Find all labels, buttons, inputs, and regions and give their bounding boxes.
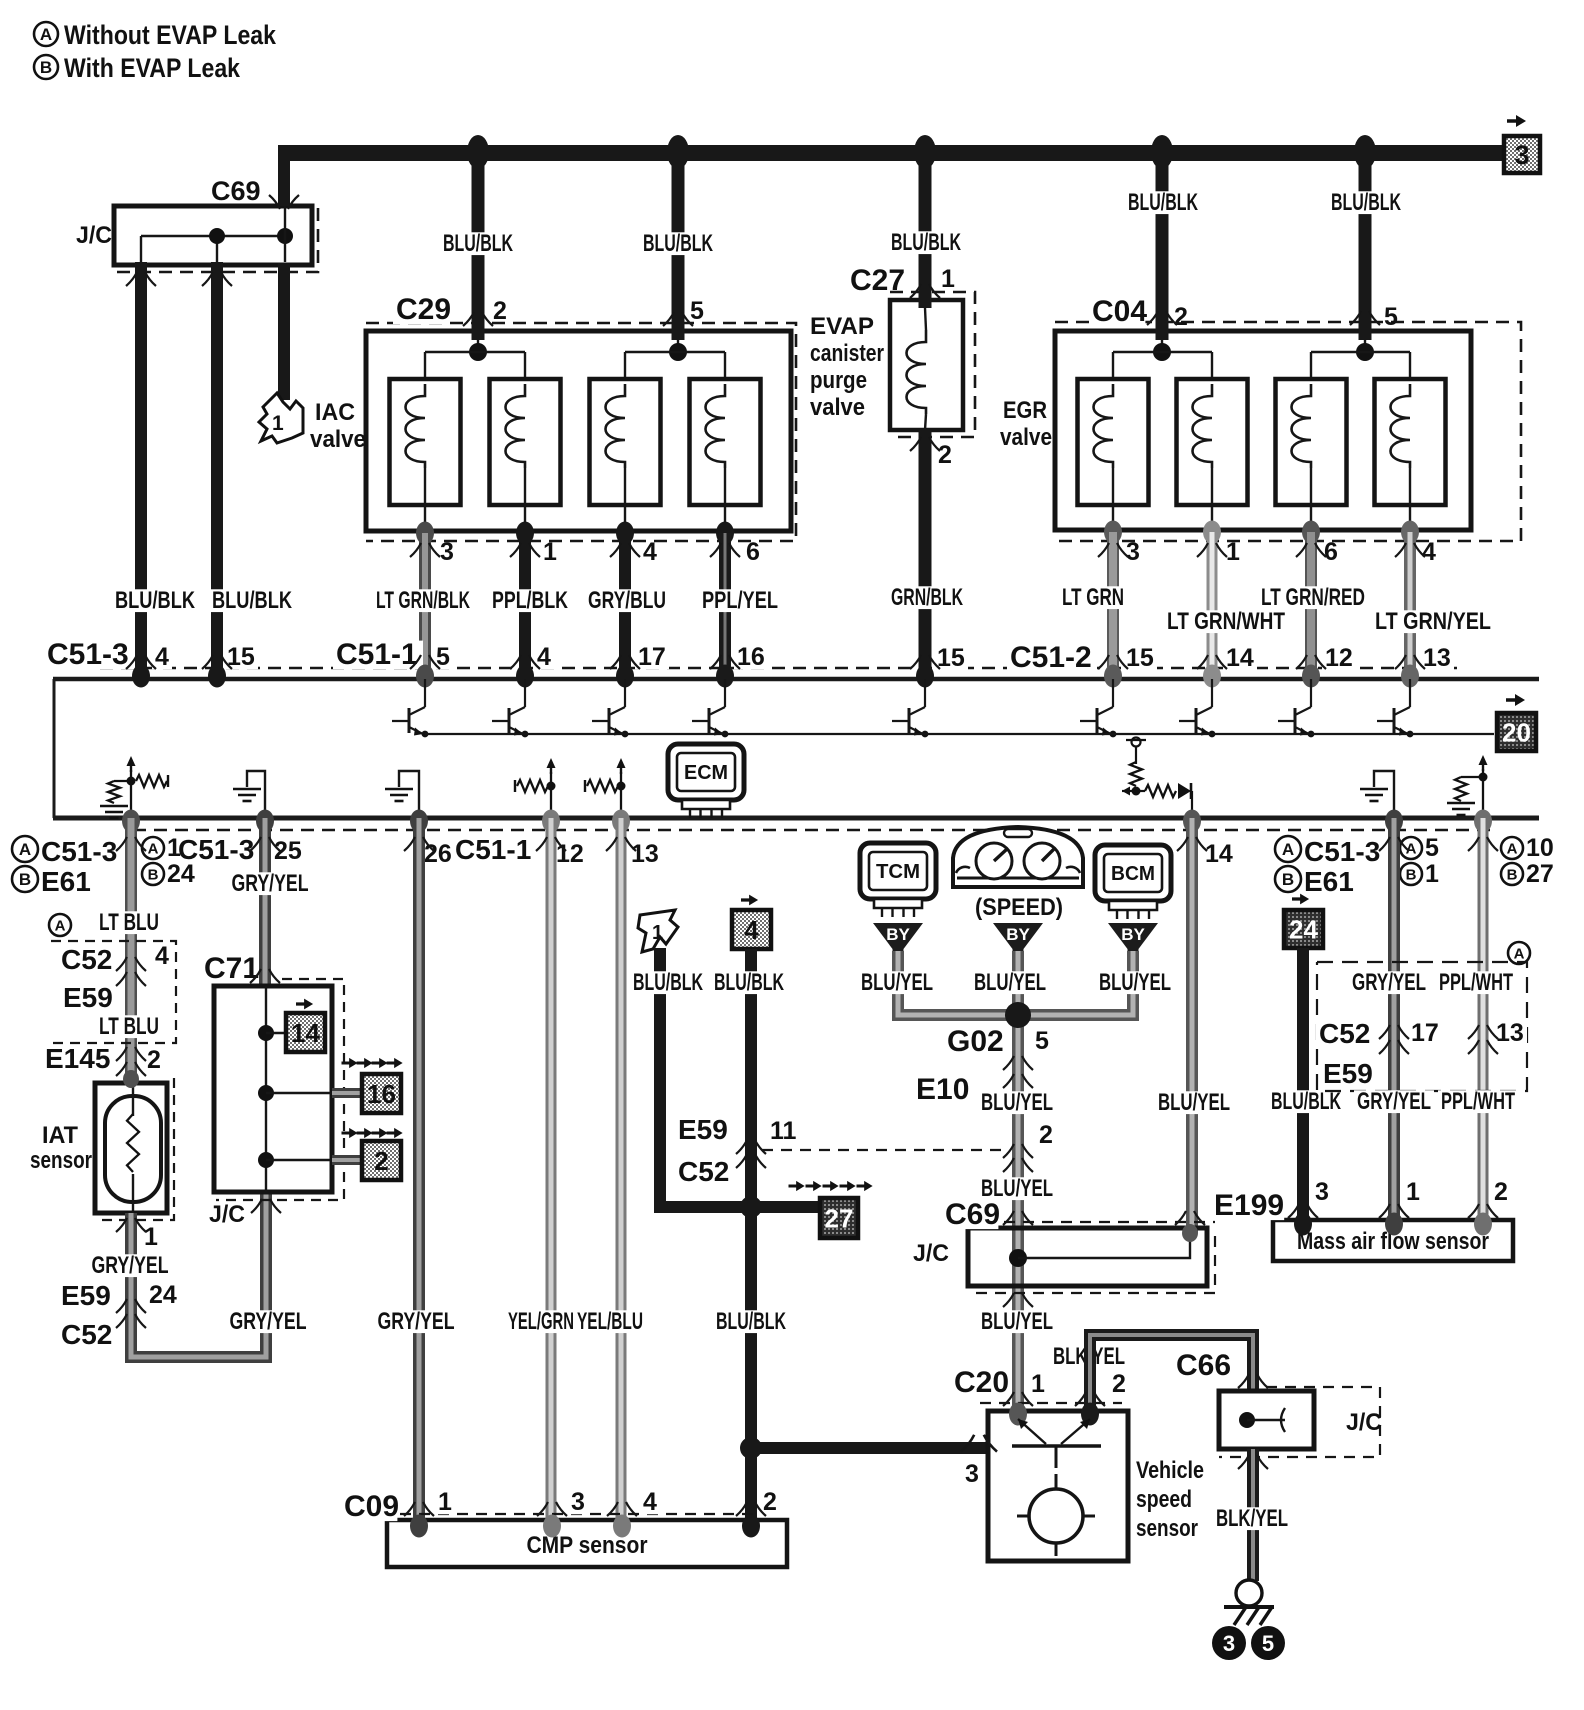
svg-text:PPL/WHT: PPL/WHT bbox=[1441, 1088, 1515, 1115]
svg-text:11: 11 bbox=[770, 1117, 797, 1145]
svg-text:C69: C69 bbox=[211, 176, 261, 206]
svg-text:GRY/YEL: GRY/YEL bbox=[1357, 1088, 1431, 1115]
svg-text:A: A bbox=[1282, 840, 1294, 859]
svg-text:3: 3 bbox=[1514, 140, 1529, 170]
C69 junction dot 2 bbox=[277, 228, 293, 244]
svg-text:24: 24 bbox=[149, 1281, 177, 1309]
wire BLU/BLK bus to C04 pin5 bbox=[1359, 147, 1372, 340]
svg-text:C51-3: C51-3 bbox=[1304, 836, 1380, 867]
gnd hook pin26 bbox=[399, 771, 419, 815]
label pin 11 bbox=[767, 1120, 801, 1144]
svg-text:PPL/WHT: PPL/WHT bbox=[1439, 969, 1513, 996]
label LT BLU 1 bbox=[96, 911, 162, 934]
svg-text:valve: valve bbox=[1000, 424, 1052, 451]
svg-text:2: 2 bbox=[374, 1146, 388, 1176]
svg-text:A: A bbox=[1507, 840, 1518, 857]
svg-text:6: 6 bbox=[1324, 538, 1338, 566]
C29 coil drop x525 bbox=[524, 352, 526, 384]
svg-text:24: 24 bbox=[167, 860, 195, 888]
label YEL/BLU cmp bbox=[574, 1310, 646, 1333]
svg-text:E145: E145 bbox=[45, 1043, 110, 1074]
gnd hook pinA5 bbox=[1374, 771, 1394, 815]
junction block C69 bbox=[114, 206, 312, 265]
svg-text:GRY/BLU: GRY/BLU bbox=[588, 587, 666, 614]
C27 dashed outline bbox=[890, 292, 975, 437]
svg-text:1: 1 bbox=[1031, 1370, 1045, 1398]
C04 coil drop x1212 bbox=[1211, 352, 1213, 384]
label BLU/YEL c20 bbox=[978, 1310, 1056, 1333]
label BLU/YEL 14 bbox=[1155, 1091, 1233, 1114]
C04 coil tail x1311 bbox=[1310, 468, 1312, 530]
label GRY/BLU bbox=[585, 589, 669, 612]
transistor at ECM pin x425 bbox=[392, 679, 428, 737]
ECM lower dashed row bbox=[133, 829, 1490, 832]
svg-text:1: 1 bbox=[272, 412, 284, 435]
C29 coil winding box x425 bbox=[390, 379, 461, 505]
svg-text:C66: C66 bbox=[1176, 1349, 1231, 1382]
label C52 pin17 bbox=[1408, 1022, 1442, 1046]
C04 feed drop 1 bbox=[1161, 340, 1163, 352]
C69L dashed outline2 bbox=[975, 1236, 1215, 1293]
label C51 pin15 grnblk bbox=[934, 647, 968, 671]
C29 coil tail x425 bbox=[424, 468, 426, 531]
C29 coil feed junction dots bbox=[469, 343, 487, 361]
pin bulges at ECM top bbox=[132, 665, 150, 688]
label pin 13b bbox=[628, 843, 662, 867]
label E145 bbox=[42, 1046, 111, 1073]
IAT exit bbox=[132, 1174, 134, 1213]
svg-text:GRY/YEL: GRY/YEL bbox=[230, 1308, 307, 1335]
page-link box 24 with arrow bbox=[1292, 894, 1309, 905]
wire GRY/YEL maf bbox=[1388, 818, 1400, 1224]
svg-text:13: 13 bbox=[631, 840, 659, 868]
label C69 lower bbox=[942, 1201, 998, 1230]
label YEL/GRN cmp bbox=[505, 1310, 577, 1333]
label BLU/BLK cmp2 bbox=[713, 1310, 789, 1333]
EGR valve box C04 bbox=[1055, 331, 1471, 530]
svg-text:With EVAP Leak: With EVAP Leak bbox=[64, 53, 241, 83]
IAT sensor box bbox=[95, 1083, 167, 1213]
wire stub to box16 bbox=[332, 1088, 364, 1098]
C52/E59 dashed box bbox=[51, 941, 176, 1043]
svg-text:16: 16 bbox=[737, 643, 765, 671]
BCM module icon bbox=[1095, 845, 1171, 919]
wire GRY/YEL IAT pin1 bbox=[131, 1192, 266, 1357]
C04 pin 4 bulge bbox=[1401, 521, 1419, 544]
svg-text:C51-3: C51-3 bbox=[47, 638, 129, 671]
svg-text:BLU/YEL: BLU/YEL bbox=[981, 1308, 1053, 1335]
label C51-1 pin16 bbox=[734, 646, 768, 670]
ECM box left edge bbox=[53, 679, 56, 818]
svg-text:B: B bbox=[1282, 870, 1294, 889]
svg-text:Without EVAP Leak: Without EVAP Leak bbox=[64, 20, 277, 50]
C69 internal drop x217 bbox=[216, 236, 218, 262]
A-variant dashed connector box bbox=[1508, 942, 1530, 964]
svg-text:BLU/YEL: BLU/YEL bbox=[981, 1089, 1053, 1116]
label LT GRN/RED bbox=[1258, 586, 1368, 609]
label C52 pin4 bbox=[152, 945, 172, 969]
wire LT GRN C04 to C51-2 pin15 bbox=[1107, 532, 1119, 673]
svg-text:BLK/YEL: BLK/YEL bbox=[1216, 1505, 1288, 1532]
svg-text:G02: G02 bbox=[947, 1025, 1004, 1058]
svg-text:GRY/YEL: GRY/YEL bbox=[92, 1252, 169, 1279]
internal pull-up at pin 13 (x=621) bbox=[585, 758, 626, 815]
junction blob x751 y1207 bbox=[740, 1196, 762, 1218]
label C51-2 pin13 bbox=[1420, 647, 1454, 671]
svg-text:C52: C52 bbox=[61, 944, 112, 975]
svg-text:BLU/BLK: BLU/BLK bbox=[633, 969, 703, 996]
legend B: With EVAP Leak bbox=[34, 55, 58, 79]
C29 connector dashed outline bbox=[366, 323, 796, 541]
BY connector funnel SPEED bbox=[993, 923, 1043, 954]
label BLU/BLK l1 bbox=[440, 232, 516, 255]
C69 dashed outline bbox=[116, 208, 318, 272]
svg-text:BLU/BLK: BLU/BLK bbox=[212, 587, 292, 614]
svg-text:E61: E61 bbox=[41, 866, 91, 897]
wire BLU/YEL main bbox=[1012, 951, 1024, 1411]
svg-text:C29: C29 bbox=[396, 293, 451, 326]
svg-text:C71: C71 bbox=[204, 952, 259, 985]
svg-text:GRY/YEL: GRY/YEL bbox=[378, 1308, 455, 1335]
label PPL/YEL bbox=[699, 589, 781, 612]
svg-text:C51-2: C51-2 bbox=[1010, 641, 1092, 674]
internal supply network to pin 14 bbox=[1122, 738, 1192, 816]
label MAF pin2 bbox=[1491, 1181, 1511, 1205]
svg-text:1: 1 bbox=[144, 1223, 158, 1251]
svg-text:E61: E61 bbox=[1304, 866, 1354, 897]
label C52 mid bbox=[675, 1159, 728, 1186]
wire BLU/BLK C69 to C51-3 pin 15 bbox=[211, 262, 223, 673]
label BLU/BLK l2 bbox=[640, 232, 716, 255]
svg-text:2: 2 bbox=[1494, 1178, 1508, 1206]
svg-text:BLU/BLK: BLU/BLK bbox=[891, 229, 961, 256]
label GRN/BLK bbox=[888, 586, 966, 609]
svg-text:BLU/BLK: BLU/BLK bbox=[714, 969, 784, 996]
svg-text:3: 3 bbox=[965, 1460, 979, 1488]
svg-text:C27: C27 bbox=[850, 264, 905, 297]
wire GRN/BLK C27 to C51 pin15 bbox=[919, 430, 932, 673]
wire BLU/BLK bus to C27 pin1 bbox=[919, 147, 932, 308]
wire main power bus bbox=[278, 145, 1508, 161]
svg-text:16: 16 bbox=[367, 1079, 396, 1109]
svg-text:C04: C04 bbox=[1092, 295, 1147, 328]
C51 connector dashed row bbox=[100, 667, 1460, 670]
C29 coil winding box x725 bbox=[690, 379, 761, 505]
svg-text:BY: BY bbox=[886, 925, 910, 944]
label BLU/BLK l5 bbox=[1328, 191, 1404, 214]
ground id circles 3 and 5 bbox=[1212, 1626, 1246, 1660]
svg-text:3: 3 bbox=[440, 538, 454, 566]
C04 coil feed junction dots bbox=[1153, 343, 1171, 361]
svg-text:BCM: BCM bbox=[1111, 863, 1155, 885]
C04 coil winding box x1212 bbox=[1177, 379, 1248, 505]
svg-text:3: 3 bbox=[1126, 538, 1140, 566]
svg-text:13: 13 bbox=[1423, 644, 1451, 672]
label BLU/BLK b4 bbox=[711, 971, 787, 994]
label C29 bbox=[393, 296, 449, 325]
svg-text:speed: speed bbox=[1136, 1486, 1192, 1513]
label GRY/YEL c71 bbox=[227, 1310, 310, 1333]
label C51-2 pin15 bbox=[1123, 647, 1157, 671]
C29 coil tail x625 bbox=[624, 468, 626, 531]
C29 pin 4 bulge bbox=[616, 522, 634, 545]
C04 distribution line A bbox=[1113, 351, 1212, 353]
C69 junction dot 1 bbox=[209, 228, 225, 244]
wire BLU/BLK box24 bbox=[1297, 948, 1309, 1224]
svg-text:17: 17 bbox=[1411, 1019, 1439, 1047]
gnd hook pin25 bbox=[247, 771, 265, 815]
label BLU/YEL b bbox=[1096, 971, 1174, 994]
C29 pin 1 bulge bbox=[516, 522, 534, 545]
transistor at ECM pin x525 bbox=[492, 679, 528, 737]
label E145 pin2 bbox=[144, 1049, 164, 1073]
transistor at ECM pin x925 bbox=[892, 679, 928, 737]
internal network at pin A1/B24 (x=131) bbox=[100, 756, 168, 818]
svg-text:B: B bbox=[1406, 866, 1417, 883]
label BLK/YEL g bbox=[1213, 1507, 1291, 1530]
svg-text:3: 3 bbox=[1223, 1631, 1235, 1656]
wire LT BLU upper bbox=[125, 818, 137, 1083]
label C51-2 pin14 bbox=[1223, 647, 1257, 671]
svg-text:C51-1: C51-1 bbox=[455, 834, 531, 865]
svg-text:5: 5 bbox=[690, 297, 704, 325]
wire LT GRN/BLK C29 to C51-1 pin5 bbox=[419, 533, 431, 673]
svg-text:YEL/BLU: YEL/BLU bbox=[577, 1308, 643, 1335]
svg-text:2: 2 bbox=[1039, 1121, 1053, 1149]
label pin 12b bbox=[553, 843, 587, 867]
svg-text:15: 15 bbox=[937, 644, 965, 672]
IAC valve box C29 bbox=[366, 331, 791, 531]
label CMP pin1 bbox=[435, 1491, 455, 1515]
junction blob BLU/YEL bbox=[1005, 1002, 1031, 1028]
label A C51-3 / B E61 (left) bbox=[12, 836, 38, 862]
svg-text:B: B bbox=[148, 866, 159, 883]
wire BLU/BLK bus to C69 bbox=[278, 146, 290, 206]
C29 coil drop x425 bbox=[424, 352, 426, 384]
svg-text:2: 2 bbox=[1112, 1370, 1126, 1398]
svg-text:25: 25 bbox=[274, 837, 302, 865]
wire GRY/YEL pin26 bbox=[413, 818, 425, 1524]
C29 coil winding box x525 bbox=[490, 379, 561, 505]
label C51-3 pin15 bbox=[224, 646, 258, 670]
C71 link to 2 bbox=[266, 1159, 332, 1161]
svg-text:4: 4 bbox=[155, 942, 169, 970]
label C71 bbox=[201, 955, 257, 984]
svg-text:4: 4 bbox=[643, 538, 657, 566]
wire BLU/BLK C69 to IAC pointer bbox=[278, 263, 290, 400]
wire GRY/BLU C29 to C51-1 pin17 bbox=[619, 533, 631, 673]
C69L dashed outline bbox=[985, 1221, 1215, 1223]
label BLU/BLK l3 bbox=[888, 231, 964, 254]
svg-text:CMP sensor: CMP sensor bbox=[527, 1532, 648, 1559]
C71 internal line bbox=[265, 986, 267, 1192]
label GRY/YEL 25 bbox=[229, 872, 312, 895]
label C51-1 pin4 bbox=[534, 646, 554, 670]
svg-text:5: 5 bbox=[1035, 1027, 1049, 1055]
C20 dashed row bbox=[980, 1402, 1122, 1404]
label LT GRN/WHT bbox=[1164, 610, 1288, 633]
svg-text:sensor: sensor bbox=[30, 1147, 92, 1174]
svg-text:5: 5 bbox=[1384, 303, 1398, 331]
label LT GRN/BLK bbox=[373, 589, 473, 612]
label C51-2 bbox=[1007, 644, 1097, 673]
wire BLK/YEL vss-c66 bbox=[1090, 1335, 1253, 1411]
label LT GRN bbox=[1059, 586, 1127, 609]
svg-text:LT GRN: LT GRN bbox=[1062, 584, 1124, 611]
svg-text:B: B bbox=[1507, 866, 1518, 883]
label C52 left bbox=[58, 947, 111, 974]
wire BLU/YEL BCM bbox=[1018, 951, 1133, 1015]
svg-text:Vehicle: Vehicle bbox=[1136, 1457, 1204, 1484]
C66 internal line bbox=[1247, 1419, 1285, 1421]
label BLU/YEL s bbox=[971, 971, 1049, 994]
label IAT pin 1 bbox=[141, 1226, 161, 1250]
svg-text:GRN/BLK: GRN/BLK bbox=[891, 584, 963, 611]
label CMP pin3 bbox=[568, 1491, 588, 1515]
legend A: Without EVAP Leak bbox=[34, 22, 58, 46]
label PPL/WHT m bbox=[1438, 1090, 1518, 1113]
A dashed box bbox=[1317, 962, 1527, 1091]
svg-text:LT BLU: LT BLU bbox=[99, 1013, 159, 1040]
svg-text:C52: C52 bbox=[678, 1156, 729, 1187]
svg-text:PPL/BLK: PPL/BLK bbox=[492, 587, 568, 614]
svg-text:BLU/BLK: BLU/BLK bbox=[1128, 189, 1198, 216]
wire BLU/BLK bus to C04 pin2 bbox=[1156, 147, 1169, 340]
svg-text:B: B bbox=[40, 58, 52, 77]
C04 coil tail x1212 bbox=[1211, 468, 1213, 530]
label C51-3 pin4 bbox=[152, 646, 172, 670]
MAF box bbox=[1273, 1220, 1513, 1261]
C04 distribution line B bbox=[1311, 351, 1410, 353]
page-link box 2 bbox=[342, 1128, 403, 1138]
C04 coil winding box x1113 bbox=[1078, 379, 1149, 505]
label GRY/YEL a bbox=[1349, 971, 1429, 994]
C29 pin 3 bulge bbox=[416, 522, 434, 545]
wire LT GRN/RED C04 to C51-2 pin12 bbox=[1305, 532, 1317, 673]
svg-text:3: 3 bbox=[571, 1488, 585, 1516]
svg-text:BY: BY bbox=[1006, 925, 1030, 944]
label pin 14b bbox=[1202, 843, 1236, 867]
C29 coil tail x725 bbox=[724, 468, 726, 531]
svg-text:GRY/YEL: GRY/YEL bbox=[1352, 969, 1426, 996]
page-link box 4 with arrow bbox=[741, 895, 758, 906]
transistor at ECM pin x1113 bbox=[1080, 679, 1116, 737]
label C66 bbox=[1173, 1352, 1229, 1381]
C66 junction dot bbox=[1239, 1412, 1255, 1428]
label PPL/WHT a bbox=[1436, 971, 1516, 994]
svg-text:C20: C20 bbox=[954, 1366, 1009, 1399]
C29 feed drop 2 bbox=[677, 340, 679, 352]
label CMP pin4 bbox=[640, 1491, 660, 1515]
bus junction x1365 bbox=[1354, 135, 1376, 169]
wire LT GRN/WHT C04 to C51-2 pin14 bbox=[1207, 532, 1218, 673]
label pin 25 bbox=[271, 840, 305, 864]
label C52 iat bbox=[58, 1322, 111, 1349]
label BLU/YEL g bbox=[978, 1091, 1056, 1114]
svg-text:purge: purge bbox=[810, 367, 867, 394]
svg-text:C51-3: C51-3 bbox=[41, 836, 117, 867]
C69 internal line bbox=[141, 235, 285, 237]
svg-text:27: 27 bbox=[1526, 860, 1554, 888]
C29 distribution line B bbox=[625, 351, 725, 353]
svg-text:1: 1 bbox=[543, 538, 557, 566]
page-link box 27 bbox=[789, 1181, 873, 1191]
label GRY/YEL cmp bbox=[375, 1310, 458, 1333]
svg-text:YEL/GRN: YEL/GRN bbox=[508, 1308, 574, 1335]
wire BLK/YEL gnd bbox=[1247, 1449, 1259, 1581]
svg-text:C69: C69 bbox=[945, 1198, 1000, 1231]
transistor at ECM pin x725 bbox=[692, 679, 728, 737]
C66 dashed outline bbox=[1219, 1387, 1380, 1457]
label C20 pin1 bbox=[1028, 1373, 1048, 1397]
svg-text:E59: E59 bbox=[1323, 1058, 1373, 1089]
svg-text:E199: E199 bbox=[1214, 1189, 1284, 1222]
svg-text:A: A bbox=[55, 917, 66, 934]
svg-text:LT GRN/WHT: LT GRN/WHT bbox=[1167, 608, 1285, 635]
wire BLU/BLK to VSS bbox=[751, 1442, 988, 1454]
C04 connector dashed outline bbox=[1055, 322, 1521, 541]
VSS internals bbox=[1012, 1419, 1101, 1556]
label C52 r bbox=[1316, 1021, 1369, 1048]
label E10 pin2 bbox=[1036, 1124, 1056, 1148]
label lower C51-3 2 bbox=[175, 837, 259, 864]
svg-text:A: A bbox=[40, 25, 52, 44]
svg-text:2: 2 bbox=[147, 1046, 161, 1074]
svg-text:14: 14 bbox=[1205, 840, 1233, 868]
label CMP pin2 bbox=[760, 1491, 780, 1515]
svg-text:BLU/YEL: BLU/YEL bbox=[974, 969, 1046, 996]
svg-text:17: 17 bbox=[638, 643, 666, 671]
transistor at ECM pin x1410 bbox=[1377, 679, 1413, 737]
svg-text:sensor: sensor bbox=[1136, 1515, 1198, 1542]
label LT BLU 2 bbox=[96, 1015, 162, 1038]
C29 coil winding box x625 bbox=[590, 379, 661, 505]
C29 coil tail x525 bbox=[524, 468, 526, 531]
label MAF pin3 bbox=[1312, 1181, 1332, 1205]
label G02 pin5 bbox=[1032, 1030, 1052, 1054]
wire BLU/BLK to box27 bbox=[751, 1201, 820, 1213]
C09 dashed row bbox=[400, 1513, 760, 1515]
svg-text:10: 10 bbox=[1526, 834, 1554, 862]
label GRY/YEL m bbox=[1354, 1090, 1434, 1113]
label E59 left bbox=[60, 985, 113, 1012]
svg-text:1: 1 bbox=[167, 834, 181, 862]
svg-text:BLU/YEL: BLU/YEL bbox=[861, 969, 933, 996]
bus junction x925 bbox=[914, 135, 936, 169]
label GRY/YEL iat bbox=[89, 1254, 172, 1277]
C69L internal line bbox=[1018, 1233, 1190, 1258]
C04 pin 3 bulge bbox=[1104, 521, 1122, 544]
C04 feed drop 2 bbox=[1364, 340, 1366, 352]
label C51-1 bbox=[333, 641, 423, 670]
svg-text:20: 20 bbox=[1502, 717, 1531, 747]
label lower C51-1 bbox=[452, 837, 536, 864]
label C04 bbox=[1089, 298, 1145, 327]
wire PPL/WHT maf bbox=[1478, 818, 1489, 1224]
label E59 pin24 bbox=[146, 1284, 180, 1308]
C71 junction dot 2 bbox=[258, 1085, 274, 1101]
svg-text:2: 2 bbox=[938, 441, 952, 469]
label C51-1 pin5 bbox=[433, 646, 453, 670]
label E10 bbox=[913, 1076, 969, 1105]
wire YEL/GRN pin12 bbox=[546, 818, 557, 1524]
VSS box bbox=[988, 1411, 1128, 1561]
wire PPL/YEL C29 to C51-1 pin16 bbox=[719, 533, 731, 673]
bus junction x1162 bbox=[1151, 135, 1173, 169]
page-link box 16 bbox=[342, 1058, 403, 1068]
svg-text:1: 1 bbox=[438, 1488, 452, 1516]
svg-text:(SPEED): (SPEED) bbox=[975, 894, 1063, 921]
